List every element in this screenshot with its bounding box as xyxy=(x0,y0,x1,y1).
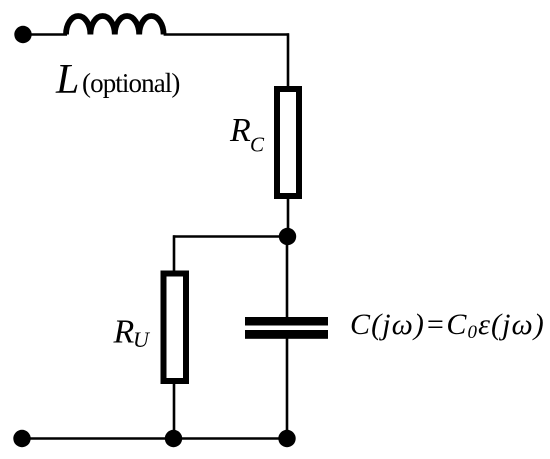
capacitor C1 top plate xyxy=(245,317,328,326)
wire: inductor to top-right corner xyxy=(164,33,289,36)
node dot below R_U xyxy=(165,430,182,447)
svg-text:C(jω)=C0ε(jω): C(jω)=C0ε(jω) xyxy=(350,308,545,343)
junction node A xyxy=(279,228,296,245)
terminal dot top-left xyxy=(14,26,31,43)
inductor L1 xyxy=(66,16,164,34)
resistor R_C body xyxy=(277,89,299,196)
svg-text:C: C xyxy=(250,133,265,157)
wire: down to R_U top xyxy=(173,235,176,274)
wire: corner down to R_C xyxy=(287,33,290,88)
wire: R_C bottom to junction node xyxy=(287,199,290,237)
capacitor C1 bottom plate xyxy=(245,330,328,339)
svg-text:R: R xyxy=(113,314,135,351)
wire: node A left to R_U branch xyxy=(173,235,288,238)
wire: capacitor bottom to bottom rail xyxy=(286,338,289,439)
wire: top-left dot to inductor xyxy=(23,33,67,36)
bottom rail wire xyxy=(22,437,287,440)
svg-text:R: R xyxy=(229,112,251,149)
svg-text:(optional): (optional) xyxy=(82,68,179,98)
terminal dot bottom-left xyxy=(13,430,30,447)
resistor R_U body xyxy=(164,274,187,382)
wire: R_U bottom to bottom rail xyxy=(173,384,176,439)
svg-text:U: U xyxy=(133,327,151,352)
node dot below capacitor xyxy=(278,430,295,447)
svg-text:L: L xyxy=(55,57,79,103)
wire: node A down to capacitor xyxy=(286,237,289,319)
